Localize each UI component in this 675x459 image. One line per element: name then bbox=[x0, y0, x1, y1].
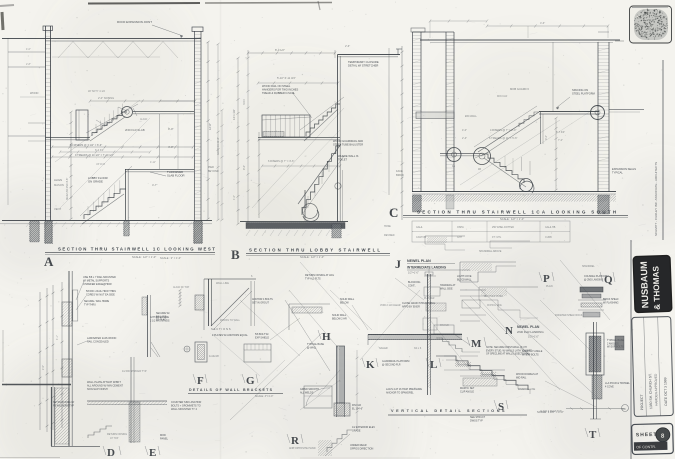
section C roof line bbox=[420, 39, 620, 41]
section C top dim marks bbox=[487, 25, 608, 27]
paper mottling bbox=[0, 0, 1, 1]
svg-text:UP 16 R: UP 16 R bbox=[96, 163, 105, 166]
section C interior faint diagonals bbox=[460, 120, 560, 185]
floor lines left of wall A bbox=[8, 51, 45, 53]
detail L nosing steps bbox=[436, 338, 462, 352]
svg-text:4'-7": 4'-7" bbox=[152, 183, 157, 187]
svg-text:C: C bbox=[389, 205, 398, 220]
svg-text:DATE OCT 3 1969: DATE OCT 3 1969 bbox=[663, 377, 668, 405]
section C left cavity wall inner wythe bbox=[445, 32, 447, 192]
circle at right wall C platform bbox=[591, 106, 605, 120]
floor line beyond right wall C bbox=[609, 109, 644, 111]
section A right wall bbox=[194, 31, 196, 221]
section A ground line bbox=[2, 220, 212, 222]
svg-text:EXPANSION SEALS: EXPANSION SEALS bbox=[612, 167, 636, 171]
svg-text:10 RISERS @ 7 1/2" = 6'-3": 10 RISERS @ 7 1/2" = 6'-3" bbox=[70, 143, 102, 147]
svg-text:9 TREADS @ 10 1/2" = 7'-10 1/2: 9 TREADS @ 10 1/2" = 7'-10 1/2" bbox=[75, 153, 114, 157]
svg-text:CORES W/ NUT EA SIDE: CORES W/ NUT EA SIDE bbox=[86, 293, 115, 296]
section A dimension row upper bbox=[52, 146, 193, 148]
section B face brick dim line bbox=[388, 48, 390, 195]
svg-text:WOOD: WOOD bbox=[30, 91, 38, 95]
stepped profiles upper bbox=[425, 235, 465, 237]
svg-text:@ WALL: @ WALL bbox=[307, 346, 317, 349]
section C upper flight stringer bbox=[478, 112, 539, 152]
bottom sheet stamp box bbox=[632, 423, 674, 454]
return nosing stair detail bbox=[88, 426, 112, 438]
section A roof truss webs bbox=[52, 40, 160, 42]
section B leader to steps bbox=[292, 92, 312, 118]
detail K dark post bbox=[337, 346, 345, 403]
detail M ledges bbox=[460, 289, 486, 291]
detail F diagonal brace bbox=[211, 288, 249, 326]
long leader diagonals bottom half bbox=[285, 300, 330, 371]
section C stair wall below platform bbox=[540, 112, 542, 144]
right margin dark block bbox=[615, 336, 624, 350]
section A nosing dim row bbox=[90, 100, 195, 102]
svg-text:REVISED: REVISED bbox=[384, 234, 395, 237]
section B lower flight stringer bbox=[298, 144, 341, 204]
svg-text:P.T. MTL: P.T. MTL bbox=[492, 236, 502, 239]
below grade hatch B bbox=[246, 230, 250, 236]
detail E floor slab bbox=[87, 400, 167, 402]
svg-text:FACE: FACE bbox=[396, 169, 403, 173]
detail J landing slab bbox=[368, 334, 462, 336]
section B left dim vertical inner bbox=[258, 132, 260, 218]
second cornice level bbox=[479, 286, 538, 288]
sheet right border line bbox=[662, 60, 664, 240]
section B left dim verticals bbox=[237, 58, 239, 224]
svg-text:OF CONTR.: OF CONTR. bbox=[636, 445, 656, 450]
section C hanger rod bbox=[552, 42, 554, 112]
detail K dim vertical bbox=[356, 350, 358, 430]
section A roof line bbox=[2, 38, 201, 40]
grade hatch marks A bbox=[26, 222, 30, 227]
section B ground slab dark band bbox=[240, 221, 348, 223]
section B top parapet bbox=[338, 54, 401, 56]
svg-text:NAILER: NAILER bbox=[379, 347, 388, 350]
section A riser dim vertical bbox=[70, 112, 72, 219]
top right stamp box bbox=[630, 6, 672, 43]
detail M cornice steps bbox=[460, 261, 516, 263]
svg-text:SCHMITT - CURLEY INC. ASSOCI: SCHMITT - CURLEY INC. ASSOCIATE - ARCHIT… bbox=[654, 162, 658, 236]
paper speckle noise bbox=[218, 70, 219, 71]
section B stair-front box bbox=[262, 115, 310, 137]
left column small rects C details bbox=[424, 287, 440, 296]
svg-text:DWGS TYP: DWGS TYP bbox=[470, 419, 483, 422]
section A left wall bbox=[45, 26, 47, 221]
section B interior faint diagonal bbox=[252, 108, 344, 208]
svg-text:@ SECOND FLR: @ SECOND FLR bbox=[382, 363, 401, 366]
newel wall rectangle A bbox=[76, 110, 88, 140]
svg-text:HOSE: HOSE bbox=[384, 225, 391, 228]
sheet left margin line bbox=[7, 38, 9, 205]
section C left cavity wall outer wythe bbox=[412, 32, 414, 192]
detail F right verticals bbox=[250, 281, 252, 326]
title block fields box bbox=[632, 316, 674, 416]
section C lower stair flight bbox=[482, 154, 524, 183]
detail G2 plan rect bbox=[244, 344, 271, 362]
floor band across cavity wall C bbox=[416, 112, 454, 119]
section C volute circle bbox=[520, 179, 533, 192]
section A leader arrows bbox=[118, 107, 127, 111]
detail D second stud wall bbox=[147, 295, 149, 357]
volute handrail arc B bbox=[303, 210, 319, 221]
svg-text:2'-6": 2'-6" bbox=[345, 44, 350, 48]
svg-text:SHEET: SHEET bbox=[636, 432, 658, 439]
detail F wall line box bbox=[204, 278, 256, 280]
detail F small block bbox=[195, 295, 204, 310]
section B lower stair flight bbox=[302, 146, 340, 215]
detail H assembly bbox=[289, 303, 330, 305]
svg-text:NEWEL PLAN: NEWEL PLAN bbox=[407, 259, 431, 263]
section B top dims bbox=[248, 52, 335, 54]
leader diagonal bundle center-left bbox=[240, 300, 300, 356]
second floor left A bbox=[46, 137, 91, 139]
svg-text:SCALE : 1/2" = 1'-0": SCALE : 1/2" = 1'-0" bbox=[500, 217, 524, 221]
svg-text:OSHA: OSHA bbox=[457, 226, 464, 229]
detail J cap ticks bbox=[424, 275, 436, 277]
detail T tall post bbox=[593, 322, 595, 419]
section A balusters lower flight bbox=[87, 206, 89, 216]
scan mark top-left corner bbox=[2, 12, 3, 30]
detail D stud wall bbox=[68, 271, 70, 446]
small circled initials bbox=[622, 405, 629, 412]
svg-text:2'-8": 2'-8" bbox=[26, 63, 31, 66]
detail T baseline bbox=[566, 408, 624, 410]
thickened slab note bbox=[150, 172, 166, 176]
svg-text:DETAIL W/ STRETCHER: DETAIL W/ STRETCHER bbox=[348, 64, 378, 68]
svg-text:4'-1": 4'-1" bbox=[56, 335, 59, 340]
detail L bracket bbox=[430, 333, 462, 335]
svg-text:E: E bbox=[149, 447, 156, 459]
section C right wall above detail bbox=[598, 31, 609, 33]
svg-text:4'-0": 4'-0" bbox=[168, 145, 174, 149]
section B lower flight balusters bbox=[307, 196, 309, 208]
section B upper stair flight bbox=[306, 104, 340, 136]
detail E wall bbox=[130, 357, 132, 443]
wall under landing A bbox=[125, 169, 127, 220]
svg-text:ALIGN W/ TOP: ALIGN W/ TOP bbox=[173, 286, 190, 289]
bracket plan with arc bbox=[304, 386, 332, 408]
landing newel circle right bbox=[474, 148, 491, 165]
section B right upper wall bbox=[337, 55, 339, 223]
section A foundation hatch mid bbox=[124, 221, 129, 236]
detail D base line bbox=[51, 446, 100, 448]
svg-text:250 WHEL DOTTED: 250 WHEL DOTTED bbox=[492, 226, 514, 229]
svg-text:TYP THRU: TYP THRU bbox=[84, 303, 96, 306]
svg-text:J: J bbox=[395, 257, 401, 271]
section C right wall bbox=[597, 42, 599, 192]
scan hatch far left bottom A bbox=[30, 221, 39, 242]
section C ground line bbox=[412, 191, 616, 193]
svg-text:VOID 2 1/2 CLEAR: VOID 2 1/2 CLEAR bbox=[380, 304, 401, 307]
svg-text:TYPICAL: TYPICAL bbox=[612, 171, 623, 175]
section C upper flight rail bbox=[474, 106, 537, 147]
section A lower rail line bbox=[80, 166, 132, 216]
section B mid landing bbox=[258, 137, 340, 139]
detail D blocking upper bbox=[62, 302, 72, 326]
detail T leader diagonal bbox=[545, 381, 596, 407]
detail Q dark bar stack bbox=[580, 287, 603, 292]
detail J newel post bbox=[427, 274, 429, 395]
detail D bracket lines bbox=[151, 342, 160, 357]
section A faint construction diagonal bbox=[55, 100, 140, 162]
svg-text:NUSBAUM: NUSBAUM bbox=[639, 261, 651, 309]
detail F post bar bbox=[208, 279, 210, 326]
detail D dim extension lines bbox=[39, 292, 41, 430]
legend table under C bbox=[412, 221, 570, 242]
detail G bolt circle bbox=[184, 346, 190, 352]
detail G bracket rect bbox=[195, 342, 207, 362]
landing newel circle left bbox=[447, 148, 461, 162]
section A mid floor right bbox=[125, 169, 194, 171]
paper scratch marks bbox=[523, 318, 530, 320]
newel circle at B wall bbox=[335, 183, 341, 189]
svg-text:SLAB FLOOR: SLAB FLOOR bbox=[167, 174, 185, 178]
big stepped tread profile bbox=[444, 356, 528, 390]
detail T foot bbox=[590, 418, 601, 420]
corner wall bottom-left horizontal bbox=[2, 384, 71, 386]
dimension lines between A and B bbox=[217, 44, 219, 220]
section B lower post pair bbox=[304, 190, 306, 221]
svg-text:ALIGN: ALIGN bbox=[54, 178, 62, 182]
detail R stair fragment bbox=[327, 430, 352, 452]
section A balusters upper flight bbox=[95, 124, 97, 133]
section B right wall lower bbox=[342, 170, 344, 222]
section C foundation hatch left bbox=[413, 195, 422, 212]
nusbaum thomas black box bbox=[633, 255, 672, 312]
fold line faint bbox=[220, 0, 222, 459]
extra bottom center leaders bbox=[270, 318, 300, 340]
bottom edge scan marks bbox=[0, 457, 60, 459]
svg-text:4'-0": 4'-0" bbox=[26, 48, 31, 51]
svg-text:GYP: GYP bbox=[457, 236, 462, 239]
corner wall bottom-left vertical bbox=[51, 387, 53, 446]
svg-text:4'-11": 4'-11" bbox=[150, 161, 156, 164]
leader diagonal bundle center-right bbox=[462, 300, 520, 360]
section A lower stair flight bbox=[84, 189, 126, 219]
section A interior vertical dim lines bbox=[159, 114, 161, 169]
svg-text:DB: DB bbox=[622, 407, 626, 411]
detail S shelf lines bbox=[460, 369, 505, 371]
svg-text:MASON: MASON bbox=[54, 183, 64, 187]
section A foundation hatch right bbox=[194, 221, 202, 243]
svg-text:ON GRADE: ON GRADE bbox=[88, 180, 103, 184]
svg-text:8'-0 1/2": 8'-0 1/2" bbox=[275, 48, 285, 52]
section C foundation hatch right bbox=[598, 195, 609, 214]
section B landing slab hatch bbox=[263, 132, 284, 137]
section C vertical dim mid bbox=[555, 118, 557, 190]
svg-text:BRICK: BRICK bbox=[396, 173, 404, 177]
detail Q lower dark assembly bbox=[586, 333, 604, 375]
section C lower flight balusters bbox=[521, 157, 523, 171]
section C upper flight steps bbox=[519, 112, 539, 127]
section A mid landing floor bbox=[133, 111, 194, 113]
section C platform floor bbox=[539, 111, 599, 113]
handrail circle detail A bbox=[122, 107, 133, 118]
section C landing line bbox=[440, 153, 482, 155]
section B upper rail bbox=[300, 97, 344, 130]
svg-text:12'-8": 12'-8" bbox=[208, 123, 212, 130]
detail D blocking lower bbox=[62, 359, 72, 377]
svg-text:RAIL CONCEALED: RAIL CONCEALED bbox=[87, 340, 109, 343]
scan streak top edge bbox=[88, 2, 200, 5]
svg-text:H: H bbox=[322, 331, 331, 343]
svg-text:CHAMFER EDGE@HDW: CHAMFER EDGE@HDW bbox=[83, 283, 112, 286]
svg-text:& THOMAS: & THOMAS bbox=[651, 265, 662, 309]
section A foundation hatch left bbox=[45, 221, 52, 243]
section A upper stair flight bbox=[92, 112, 127, 136]
section A upper rail line bbox=[86, 104, 138, 133]
svg-text:TEMPORARY CLOSURE: TEMPORARY CLOSURE bbox=[348, 60, 379, 64]
detail K base block bbox=[334, 403, 350, 416]
svg-text:4'-6": 4'-6" bbox=[540, 21, 545, 25]
svg-text:GAL&: GAL& bbox=[416, 226, 423, 229]
svg-text:SCALE : 1/2" = 1'-0": SCALE : 1/2" = 1'-0" bbox=[132, 255, 156, 259]
section A extra dim row bbox=[60, 151, 150, 153]
svg-text:PROJECT: PROJECT bbox=[640, 394, 644, 410]
section A dimension row lower bbox=[52, 156, 193, 158]
svg-text:SCALE : 3" = 1'-0": SCALE : 3" = 1'-0" bbox=[160, 256, 181, 260]
svg-text:6'-0 3/4": 6'-0 3/4" bbox=[95, 149, 104, 152]
corner wall hatch strip bbox=[55, 388, 69, 444]
svg-text:BELOW 2 HR: BELOW 2 HR bbox=[332, 317, 347, 320]
